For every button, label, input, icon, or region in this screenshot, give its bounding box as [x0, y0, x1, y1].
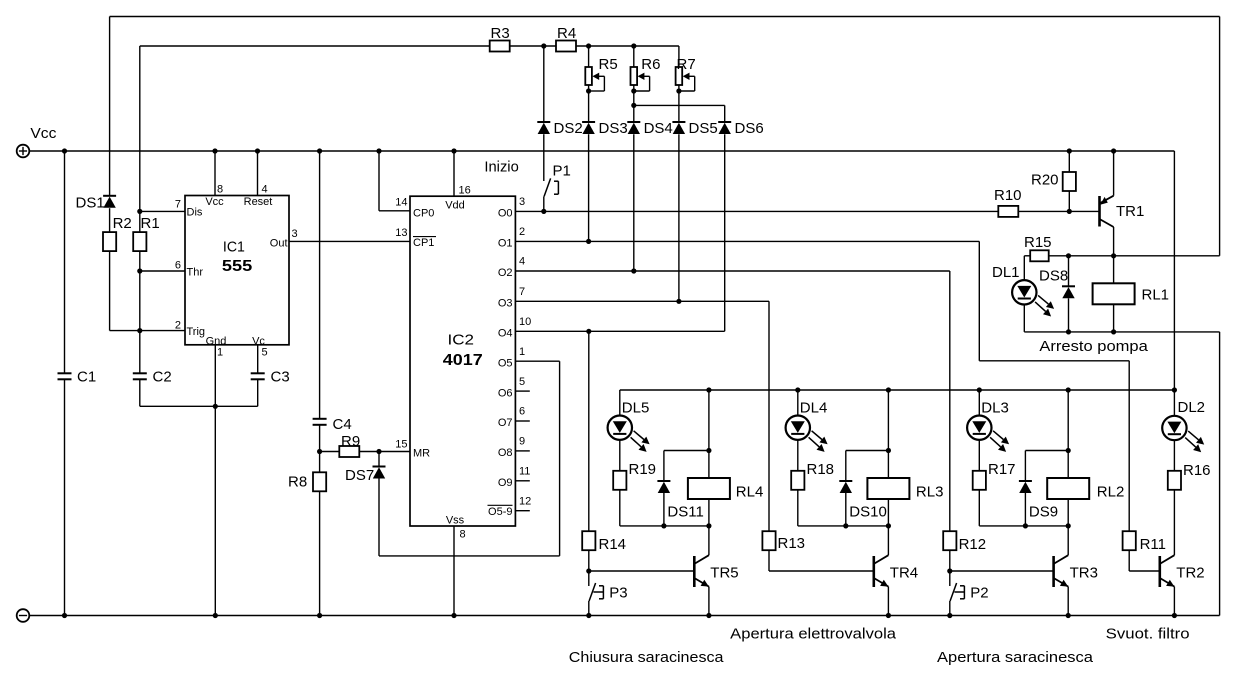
svg-text:TR3: TR3: [1070, 565, 1098, 582]
wire Vc to C3: [257, 345, 259, 374]
junction R6 top: [631, 43, 636, 48]
svg-text:7: 7: [519, 286, 525, 298]
wire R19 bottom: [619, 490, 621, 526]
junction DS9 top: [1066, 448, 1071, 453]
wire TR2 emitter to ground: [1173, 587, 1175, 616]
junction DL3 rail: [977, 387, 982, 392]
svg-text:DS4: DS4: [644, 120, 673, 137]
wire RL1 top: [1113, 256, 1115, 283]
wire R12 to base node: [949, 550, 951, 571]
svg-text:1: 1: [217, 347, 223, 359]
power terminal - (ground): [17, 609, 30, 622]
junction P1-O0: [541, 209, 546, 214]
wire R20 top: [1068, 151, 1070, 172]
svg-text:R5: R5: [599, 56, 618, 73]
resistor R10: [998, 206, 1018, 217]
wire R6 bottom to DS6 top: [634, 104, 725, 106]
junction R8 ground: [317, 613, 322, 618]
svg-text:DS10: DS10: [849, 504, 887, 521]
resistor R4: [556, 41, 576, 52]
wire DL5 to R19: [619, 440, 621, 471]
wire base TR5: [589, 570, 695, 572]
wire block bottom RL2: [979, 525, 1068, 527]
wire C3 to gnd wire: [257, 380, 259, 407]
wire Out to CP1: [289, 240, 410, 242]
svg-text:O7: O7: [498, 417, 513, 429]
resistor R8: [313, 472, 326, 491]
svg-text:6: 6: [519, 406, 525, 418]
svg-text:IC1: IC1: [223, 238, 245, 255]
junction R14-P3: [586, 568, 591, 573]
svg-text:O3: O3: [498, 298, 513, 310]
svg-text:DS9: DS9: [1029, 504, 1058, 521]
wire R9 left: [320, 451, 339, 453]
relay RL1: [1093, 283, 1135, 304]
wire TR1 collector down: [1113, 227, 1115, 256]
wire O5: [515, 360, 559, 362]
svg-text:CP1: CP1: [413, 237, 434, 249]
svg-text:O1: O1: [498, 238, 513, 250]
wire DS2 column top: [543, 46, 545, 122]
wire TR5 emitter to ground: [708, 587, 710, 616]
wire block bottom RL4: [620, 525, 709, 527]
junction TR5 ground: [706, 613, 711, 618]
junction R7 wiper: [676, 88, 681, 93]
wire DS4 to O2: [633, 134, 635, 271]
junction DS11 top: [706, 448, 711, 453]
wire RL1 bottom: [1113, 304, 1115, 332]
junction 555 Reset pin: [255, 148, 260, 153]
svg-text:R6: R6: [641, 56, 660, 73]
svg-text:C4: C4: [333, 416, 352, 433]
wire Thr: [140, 270, 185, 272]
resistor R19: [613, 471, 626, 490]
wire right return drop: [1219, 332, 1221, 616]
svg-text:O2: O2: [498, 267, 513, 279]
svg-text:9: 9: [519, 436, 525, 448]
LED DL2: [1162, 416, 1186, 440]
junction Dis-R1: [137, 209, 142, 214]
trimmer R5: [585, 67, 592, 85]
svg-text:P1: P1: [553, 163, 571, 180]
wire O3 route to R13: [768, 301, 770, 531]
resistor R15: [1030, 250, 1049, 261]
pushbutton P3: [588, 571, 590, 586]
junction DS11 bottom: [661, 523, 666, 528]
wire R7 top stub: [678, 46, 680, 67]
junction CP0 Vcc: [376, 148, 381, 153]
pin stub O5-9: [515, 510, 529, 512]
wire DS11 top stub: [663, 451, 665, 482]
wire O1: [515, 240, 979, 242]
resistor R2: [103, 232, 116, 251]
wire R2 to Trig corner: [109, 251, 111, 331]
transistor TR3 (NPN): [1052, 556, 1055, 587]
svg-text:MR: MR: [413, 448, 430, 460]
wire DS6 column top: [724, 105, 726, 122]
wire base TR3: [950, 570, 1054, 572]
svg-text:10: 10: [519, 316, 531, 328]
svg-text:R17: R17: [988, 461, 1016, 478]
pushbutton P2: [949, 571, 951, 586]
junction TR4 ground: [886, 613, 891, 618]
junction DS8 bottom: [1066, 329, 1071, 334]
wire top bus right drop: [1219, 17, 1221, 256]
svg-text:RL3: RL3: [916, 484, 944, 501]
wire Dis: [140, 210, 185, 212]
capacitor C1: [58, 372, 72, 374]
svg-text:RL1: RL1: [1142, 287, 1170, 304]
wire DS9 bottom: [1024, 493, 1026, 526]
wire R6 bottom seg: [633, 85, 635, 122]
svg-text:DS5: DS5: [689, 120, 718, 137]
junction RL1 bottom: [1111, 329, 1116, 334]
wire base TR2: [1129, 570, 1160, 572]
svg-text:Vdd: Vdd: [445, 200, 465, 212]
svg-text:R14: R14: [599, 536, 627, 553]
svg-text:Apertura saracinesca: Apertura saracinesca: [937, 649, 1094, 666]
svg-text:C3: C3: [271, 368, 290, 385]
junction Trig-R1: [137, 328, 142, 333]
svg-text:P3: P3: [609, 585, 627, 602]
svg-text:TR5: TR5: [710, 565, 738, 582]
junction C1 ground: [62, 613, 67, 618]
diode DS4: [627, 121, 640, 123]
svg-text:TR1: TR1: [1116, 203, 1144, 220]
junction TR1 collector node: [1111, 253, 1116, 258]
LED DL4: [786, 416, 810, 440]
LED DL1: [1012, 280, 1036, 304]
wire LED anode rail: [620, 389, 1175, 391]
junction C1-Vcc: [62, 148, 67, 153]
wire C2-C3 ground link: [140, 405, 258, 407]
junction TR3 ground: [1066, 613, 1071, 618]
svg-text:R8: R8: [288, 474, 307, 491]
resistor R16: [1168, 471, 1181, 490]
junction RL2 rail: [1066, 387, 1071, 392]
svg-text:R1: R1: [141, 215, 160, 232]
svg-text:DL2: DL2: [1178, 399, 1206, 416]
wire Vss to ground: [453, 526, 455, 616]
wire TR1 emitter up: [1113, 151, 1115, 196]
junction MR-DS7: [376, 449, 381, 454]
wire R3-R4: [510, 45, 556, 47]
svg-text:O5-9: O5-9: [488, 506, 512, 518]
junction RL4 bottom: [706, 523, 711, 528]
wire R6 top stub: [633, 46, 635, 67]
wire P1 to O0: [543, 196, 545, 211]
pin stub O8: [515, 450, 529, 452]
wire DS7 top stub: [378, 452, 380, 467]
svg-text:Dis: Dis: [187, 207, 203, 219]
svg-text:CP0: CP0: [413, 208, 434, 220]
wire O5 route down: [559, 361, 561, 556]
svg-text:Out: Out: [270, 238, 288, 250]
wire R10 to TR1 base: [1018, 210, 1099, 212]
relay RL3: [867, 478, 909, 499]
junction R12-P2: [947, 568, 952, 573]
svg-text:11: 11: [519, 466, 530, 478]
junction DS3-O1: [586, 239, 591, 244]
wire R16 to TR2 collector: [1173, 490, 1175, 555]
wire DS10 top stub: [845, 451, 847, 482]
svg-text:DS8: DS8: [1039, 268, 1068, 285]
junction R6 wiper: [631, 88, 636, 93]
wire RL1 return rail: [1024, 331, 1219, 333]
svg-text:2: 2: [519, 226, 525, 238]
wire TR4 emitter to ground: [887, 587, 889, 616]
wire top bus left drop: [109, 17, 111, 196]
svg-text:Vcc: Vcc: [30, 125, 57, 142]
svg-text:4: 4: [519, 256, 525, 268]
wire CP0 elbow horizontal: [379, 210, 410, 212]
counter IC2 4017 box: [410, 196, 515, 526]
wire Gnd column: [214, 345, 216, 616]
wire Vcc rail: [29, 150, 1174, 152]
capacitor C2: [133, 372, 147, 374]
wire DL2 to R16: [1173, 440, 1175, 471]
junction TR1 emitter Vcc: [1111, 148, 1116, 153]
svg-text:R20: R20: [1031, 172, 1059, 189]
wire R15 left corner: [1024, 255, 1030, 257]
svg-text:TR4: TR4: [890, 565, 918, 582]
resistor R9: [339, 446, 359, 457]
wire RL3 bottom: [887, 499, 889, 555]
resistor R20: [1063, 172, 1076, 191]
svg-text:TR2: TR2: [1176, 565, 1204, 582]
resistor R11: [1123, 531, 1136, 550]
svg-text:R12: R12: [959, 536, 987, 553]
resistor R1: [133, 232, 146, 251]
junction DS2 top: [541, 43, 546, 48]
wire TR3 emitter to ground: [1067, 587, 1069, 616]
wire O1 route down: [978, 241, 980, 360]
wire DS7 bottom: [378, 479, 380, 556]
svg-text:C1: C1: [77, 368, 96, 385]
junction R20-base: [1067, 209, 1072, 214]
junction TR2 ground: [1172, 613, 1177, 618]
wire O0: [515, 210, 998, 212]
wire RL4 bottom: [708, 499, 710, 555]
wire DS3 to O1: [588, 134, 590, 241]
wire RL4 column top: [708, 390, 710, 478]
power terminal + (Vcc): [17, 145, 30, 158]
svg-text:O9: O9: [498, 477, 513, 489]
wire C4 to R9 node: [319, 425, 321, 473]
junction R14-O4: [586, 329, 591, 334]
wire DL1 top: [1023, 256, 1025, 280]
wire DS5 to O3: [678, 134, 680, 301]
svg-text:R11: R11: [1140, 536, 1166, 553]
wire RL3 column top: [887, 390, 889, 478]
wire DL5 top: [619, 390, 621, 416]
pin stub O7: [515, 420, 529, 422]
wire DS11 bottom: [663, 493, 665, 526]
junction Thr-R1: [137, 268, 142, 273]
junction DS10 top: [886, 448, 891, 453]
diode DS1: [103, 195, 116, 197]
wire C1 column upper: [64, 151, 66, 373]
junction P3 ground: [586, 613, 591, 618]
wire Vcc right drop: [1173, 151, 1175, 390]
svg-text:6: 6: [175, 260, 181, 272]
wire R7 bottom seg: [678, 85, 680, 122]
svg-text:12: 12: [519, 496, 531, 508]
wire O2: [515, 270, 949, 272]
svg-text:C2: C2: [153, 368, 172, 385]
wire O4 to R14: [588, 331, 590, 531]
capacitor C4: [313, 418, 327, 420]
wire collector node: [1049, 255, 1220, 257]
svg-text:O0: O0: [498, 208, 513, 220]
wire R5 top stub: [588, 46, 590, 67]
svg-text:3: 3: [292, 228, 298, 240]
wire R3/R4 feed: [139, 46, 141, 232]
wire R18 bottom: [797, 490, 799, 526]
svg-text:Vcc: Vcc: [205, 196, 224, 208]
wire DS9 link: [1025, 450, 1068, 452]
wire R13 to base: [768, 550, 770, 571]
wire O4: [515, 330, 724, 332]
svg-text:DL5: DL5: [622, 400, 650, 417]
wire R8 to ground: [319, 491, 321, 615]
wire DL4 to R18: [797, 440, 799, 471]
op-amp IC1 555 box: [185, 196, 289, 345]
wire R5 bottom: [588, 85, 590, 122]
svg-text:IC2: IC2: [448, 332, 475, 349]
junction DS6 wire: [631, 103, 636, 108]
wire DL3 to R17: [978, 440, 980, 471]
svg-text:2: 2: [175, 320, 181, 332]
junction DS5-O3: [676, 299, 681, 304]
wire O1 route to R11: [1128, 361, 1130, 531]
junction R5 wiper: [586, 88, 591, 93]
junction Gnd-C2C3: [213, 404, 218, 409]
svg-text:R9: R9: [341, 433, 360, 450]
relay RL2: [1047, 478, 1089, 499]
resistor R12: [943, 531, 956, 550]
svg-text:R18: R18: [807, 461, 835, 478]
wire ground rail: [29, 615, 1219, 617]
wire DL3 top: [978, 390, 980, 416]
svg-text:R13: R13: [778, 535, 806, 552]
junction DL2 rail: [1172, 387, 1177, 392]
svg-text:P2: P2: [970, 585, 988, 602]
wire O1 route across: [979, 360, 1129, 362]
svg-text:O5: O5: [498, 357, 513, 369]
svg-text:Arresto pompa: Arresto pompa: [1039, 338, 1148, 355]
wire DS10 link: [846, 450, 889, 452]
diode DS11: [657, 480, 670, 482]
svg-text:4017: 4017: [443, 352, 483, 369]
svg-text:RL4: RL4: [736, 484, 764, 501]
pin Vdd stub: [453, 151, 455, 196]
transistor TR5 (NPN): [693, 556, 696, 587]
svg-text:Svuot. filtro: Svuot. filtro: [1106, 626, 1190, 643]
resistor R3: [490, 41, 510, 52]
svg-text:DL3: DL3: [981, 400, 1009, 417]
junction DS9 bottom: [1023, 523, 1028, 528]
wire C2 to gnd wire: [139, 380, 141, 407]
wire R11 to base: [1128, 550, 1130, 571]
junction RL3 bottom: [886, 523, 891, 528]
wire R9 right to MR: [360, 451, 411, 453]
diode DS3: [582, 121, 595, 123]
pin Vcc stub IC1: [214, 151, 216, 196]
resistor R17: [973, 471, 986, 490]
junction 555 Gnd ground: [213, 613, 218, 618]
wire RL2 column top: [1067, 390, 1069, 478]
wire CP0 elbow vertical: [378, 151, 380, 211]
resistor R18: [791, 471, 804, 490]
svg-text:DS2: DS2: [554, 120, 583, 137]
junction RL2 bottom: [1066, 523, 1071, 528]
wire Trig: [110, 330, 185, 332]
svg-text:Vss: Vss: [446, 515, 465, 527]
junction Vss ground: [451, 613, 456, 618]
svg-text:RL2: RL2: [1097, 484, 1125, 501]
svg-text:8: 8: [217, 184, 223, 196]
relay RL4: [688, 478, 730, 499]
svg-text:O6: O6: [498, 387, 513, 399]
diode DS5: [672, 121, 685, 123]
pin stub O9: [515, 480, 529, 482]
wire R20 bottom: [1068, 191, 1070, 211]
wire DS2 to P1: [543, 134, 545, 181]
wire DL1 bottom: [1023, 305, 1025, 332]
svg-text:3: 3: [519, 196, 525, 208]
transistor TR2 (NPN): [1159, 556, 1162, 587]
junction R20 Vcc: [1067, 148, 1072, 153]
resistor R13: [762, 531, 775, 550]
wire DS10 bottom: [845, 493, 847, 526]
junction C4 column Vcc: [317, 148, 322, 153]
svg-text:13: 13: [395, 227, 407, 239]
wire DS1 to R2: [109, 208, 111, 232]
junction Vdd Vcc: [451, 148, 456, 153]
svg-text:R15: R15: [1024, 234, 1052, 251]
junction MR-C4: [317, 449, 322, 454]
wire R14 to base node: [588, 550, 590, 571]
wire RL2 bottom: [1067, 499, 1069, 555]
svg-text:R3: R3: [491, 25, 510, 42]
svg-text:R19: R19: [629, 461, 657, 478]
svg-text:DS11: DS11: [667, 504, 703, 521]
resistor R14: [582, 531, 595, 550]
wire R3/R4 rail segment 1: [140, 45, 490, 47]
svg-text:5: 5: [262, 347, 268, 359]
svg-text:Thr: Thr: [187, 267, 204, 279]
svg-text:Apertura elettrovalvola: Apertura elettrovalvola: [730, 626, 897, 643]
svg-text:R4: R4: [557, 25, 576, 42]
svg-text:DS3: DS3: [599, 120, 628, 137]
svg-text:Chiusura saracinesca: Chiusura saracinesca: [569, 649, 724, 666]
LED DL3: [967, 416, 991, 440]
wire base TR4: [769, 570, 874, 572]
svg-text:O8: O8: [498, 447, 513, 459]
wire C1 column lower: [64, 380, 66, 616]
wire O2 route to R12: [949, 271, 951, 531]
wire O3: [515, 300, 769, 302]
junction DS8 top node: [1066, 253, 1071, 258]
junction DL4 rail: [795, 387, 800, 392]
wire C4 column upper: [319, 151, 321, 419]
svg-text:R2: R2: [113, 215, 132, 232]
diode DS7: [373, 466, 386, 468]
junction P2 ground: [947, 613, 952, 618]
junction DS10 bottom: [843, 523, 848, 528]
wire DS9 top stub: [1024, 451, 1026, 482]
